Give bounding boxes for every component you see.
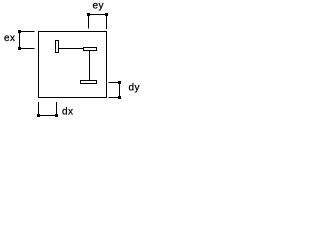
- inner left flange rectangle: [56, 41, 59, 53]
- svg-text:ex: ex: [4, 33, 16, 44]
- svg-text:dx: dx: [62, 107, 74, 118]
- svg-text:dy: dy: [129, 83, 141, 94]
- dx left extension line: [38, 102, 40, 116]
- dx right extension line: [56, 102, 58, 116]
- inner bottom flange rectangle: [81, 81, 97, 84]
- ey left tick dot: [87, 13, 90, 16]
- ex top tick dot: [18, 30, 21, 33]
- dx right tick dot: [55, 114, 58, 117]
- ey right extension line: [106, 15, 108, 30]
- ex dimension line (vertical): [19, 32, 21, 49]
- dy top extension line: [109, 82, 120, 84]
- inner horizontal web line: [59, 48, 84, 50]
- ey dimension line (horizontal): [89, 14, 107, 16]
- svg-text:ey: ey: [93, 1, 105, 12]
- ey right tick dot: [105, 13, 108, 16]
- background: [0, 0, 145, 125]
- ex top extension line: [20, 31, 35, 33]
- dy bottom tick dot: [118, 96, 121, 99]
- ey left extension line: [88, 15, 90, 29]
- dx left tick dot: [37, 114, 40, 117]
- square section outline: [39, 32, 107, 98]
- dy top tick dot: [118, 81, 121, 84]
- dy bottom extension line: [109, 97, 120, 99]
- inner vertical web line: [89, 51, 91, 81]
- ex bottom extension line: [20, 48, 35, 50]
- dx dimension line (horizontal): [39, 115, 57, 117]
- dy dimension line (vertical): [119, 83, 121, 98]
- ex bottom tick dot: [18, 47, 21, 50]
- inner top flange rectangle: [84, 48, 97, 51]
